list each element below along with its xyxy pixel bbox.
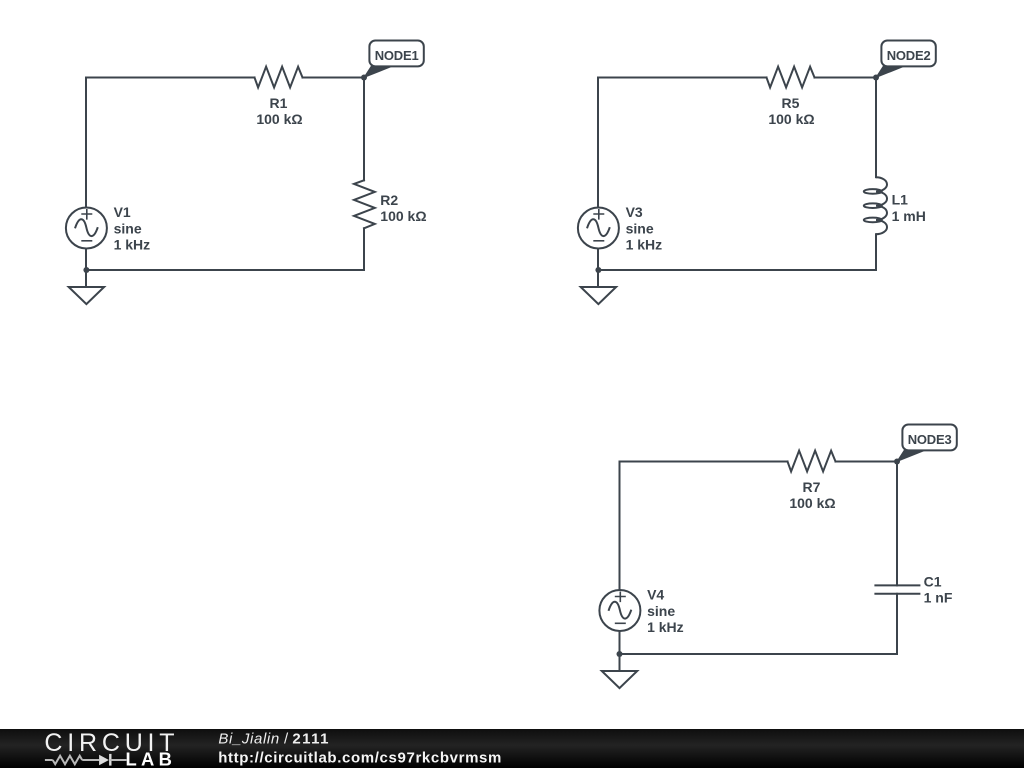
svg-text:100 kΩ: 100 kΩ bbox=[768, 111, 814, 127]
wire: right vertical above L1 bbox=[875, 78, 877, 178]
svg-text:sine: sine bbox=[647, 603, 675, 619]
node NODE1 flag bbox=[364, 41, 424, 78]
voltage source V3 bbox=[578, 208, 619, 249]
wire: bottom horizontal circuit3 bbox=[620, 653, 898, 655]
svg-text:R5: R5 bbox=[782, 95, 800, 111]
label L1 1 mH bbox=[892, 192, 926, 224]
svg-text:1 kHz: 1 kHz bbox=[114, 237, 151, 253]
logo wire lead left bbox=[45, 759, 53, 761]
junction dot circuit2 bbox=[595, 267, 601, 273]
node NODE3 flag bbox=[897, 425, 957, 462]
voltage source V1 bbox=[66, 208, 107, 249]
resistor R1 bbox=[255, 67, 303, 88]
svg-text:NODE1: NODE1 bbox=[375, 48, 419, 63]
wire: bottom horizontal bbox=[86, 269, 364, 271]
capacitor C1 bbox=[875, 585, 919, 593]
svg-text:R7: R7 bbox=[803, 479, 821, 495]
wire: top horizontal left of R7 bbox=[620, 461, 788, 463]
resistor R5 bbox=[767, 67, 815, 88]
svg-text:100 kΩ: 100 kΩ bbox=[256, 111, 302, 127]
svg-text:1 mH: 1 mH bbox=[892, 208, 926, 224]
svg-text:V3: V3 bbox=[626, 204, 643, 220]
logo wire lead mid bbox=[82, 759, 99, 761]
svg-text:C1: C1 bbox=[924, 574, 942, 590]
wire: right vertical below C1 bbox=[896, 594, 898, 654]
svg-text:Bi_Jialin / 2111: Bi_Jialin / 2111 bbox=[218, 730, 329, 747]
wire: left vertical from V4 top to top-left corner bbox=[619, 462, 621, 590]
voltage source V4 bbox=[599, 590, 640, 631]
svg-text:L1: L1 bbox=[892, 192, 909, 208]
wire: V1 bottom lead to ground bbox=[85, 249, 87, 288]
resistor R7 bbox=[788, 451, 836, 472]
svg-text:LAB: LAB bbox=[126, 749, 177, 768]
ground symbol circuit3 bbox=[602, 671, 637, 688]
svg-text:1 nF: 1 nF bbox=[924, 590, 953, 606]
wire: top horizontal right of R5 bbox=[815, 77, 877, 79]
wire: top horizontal right of R1 bbox=[303, 77, 365, 79]
resistor R2 bbox=[354, 180, 375, 228]
svg-text:NODE2: NODE2 bbox=[887, 48, 931, 63]
svg-text:R1: R1 bbox=[270, 95, 288, 111]
label R7 100 kΩ bbox=[789, 479, 835, 511]
wire: V3 bottom lead to ground bbox=[597, 249, 599, 288]
wire: top horizontal left of R1 bbox=[86, 77, 255, 79]
wire: V4 bottom lead to ground bbox=[619, 631, 621, 671]
junction dot circuit3 bbox=[617, 651, 623, 657]
logo diode bbox=[99, 754, 110, 766]
svg-text:100 kΩ: 100 kΩ bbox=[380, 208, 426, 224]
svg-text:sine: sine bbox=[626, 220, 654, 236]
label V4 sine 1 kHz bbox=[647, 586, 684, 635]
node NODE2 flag bbox=[876, 41, 936, 78]
wire: top horizontal left of R5 bbox=[598, 77, 767, 79]
svg-text:V1: V1 bbox=[114, 204, 131, 220]
label R2 100 kΩ bbox=[380, 192, 426, 224]
label R5 100 kΩ bbox=[768, 95, 814, 127]
wire: right vertical below L1 bbox=[875, 234, 877, 270]
label V1 sine 1 kHz bbox=[114, 204, 151, 253]
svg-text:1 kHz: 1 kHz bbox=[626, 237, 663, 253]
node dot NODE1 bbox=[361, 75, 367, 81]
wire: left vertical from V3 top to top-left corner bbox=[597, 78, 599, 207]
svg-text:R2: R2 bbox=[380, 192, 398, 208]
junction dot circuit1 bbox=[83, 267, 89, 273]
ground symbol circuit1 bbox=[69, 287, 104, 304]
wire: right vertical above R2 bbox=[363, 78, 365, 181]
node dot NODE3 bbox=[894, 459, 900, 465]
wire: right vertical below R2 bbox=[363, 228, 365, 270]
svg-text:1 kHz: 1 kHz bbox=[647, 619, 684, 635]
svg-text:sine: sine bbox=[114, 220, 142, 236]
footer bar bbox=[0, 729, 1024, 768]
svg-text:100 kΩ: 100 kΩ bbox=[789, 495, 835, 511]
node dot NODE2 bbox=[873, 75, 879, 81]
wire: top horizontal right of R7 bbox=[836, 461, 898, 463]
logo wire lead right bbox=[110, 759, 126, 761]
wire: right vertical above C1 bbox=[896, 462, 898, 586]
wire: left vertical from V1 top to top-left corner bbox=[85, 78, 87, 207]
logo resistor zigzag bbox=[53, 756, 83, 765]
ground symbol circuit2 bbox=[581, 287, 616, 304]
svg-text:NODE3: NODE3 bbox=[908, 432, 952, 447]
label R1 100 kΩ bbox=[256, 95, 302, 127]
wire: bottom horizontal circuit2 bbox=[598, 269, 876, 271]
svg-text:http://circuitlab.com/cs97rkcb: http://circuitlab.com/cs97rkcbvrmsm bbox=[218, 750, 502, 767]
inductor L1 bbox=[864, 177, 887, 234]
svg-text:V4: V4 bbox=[647, 586, 664, 602]
label V3 sine 1 kHz bbox=[626, 204, 663, 253]
label C1 1 nF bbox=[924, 574, 953, 606]
